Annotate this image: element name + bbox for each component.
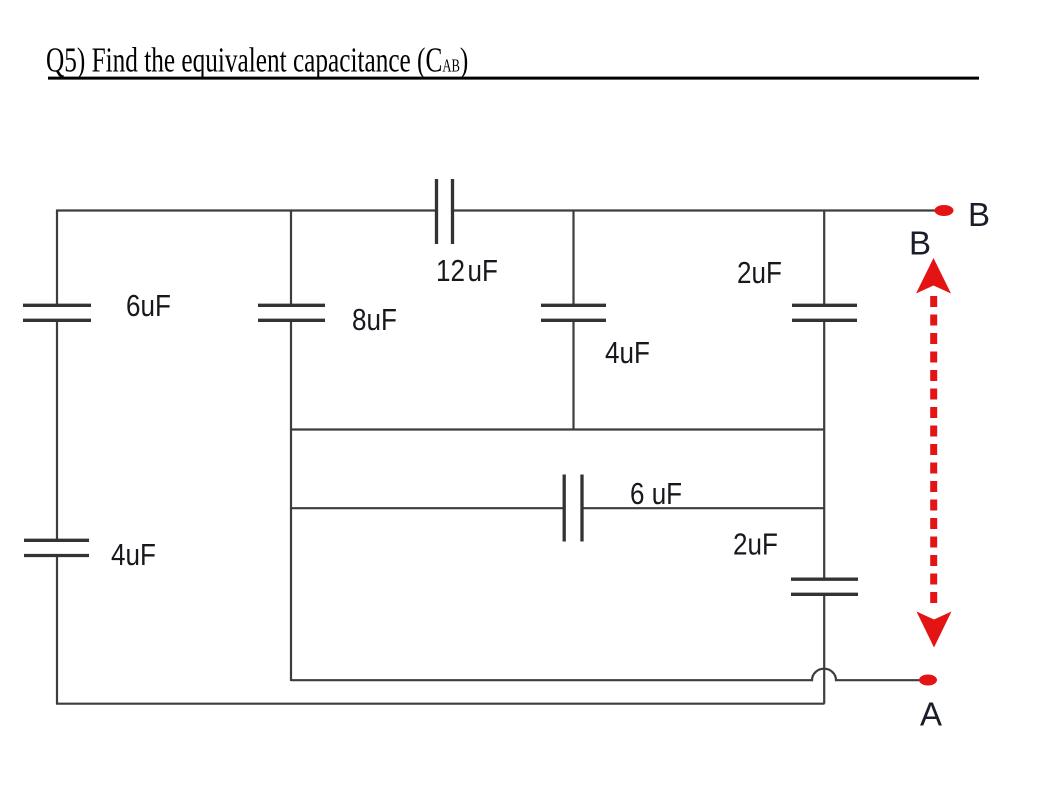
wire: right branch middle segment [823, 321, 825, 579]
measurement arrow A to B (red dashed) [916, 258, 952, 648]
capacitor C6 2uF (top right) plates [792, 304, 857, 307]
capacitor C7 6uF (inner rail) plates [563, 475, 566, 542]
wire: inner bottom rail to terminal A with hop over x=823.5 [291, 669, 920, 681]
wire: top rail right of C12 to terminal B [453, 209, 938, 211]
wire: 4uF branch lower segment [572, 321, 574, 430]
wire: left branch middle segment [56, 321, 58, 541]
capacitor C4 12uF plates [435, 179, 438, 244]
node A terminal dot [919, 675, 937, 686]
node B terminal dot [935, 205, 954, 216]
arrow dashed shaft [930, 296, 937, 609]
svg-text:2uF: 2uF [737, 256, 782, 291]
capacitor C2 4uF (left) plates [24, 539, 89, 542]
capacitor C1 6uF plates [23, 304, 91, 307]
svg-text:6 uF: 6 uF [630, 477, 682, 512]
wire: left branch upper segment [56, 210, 58, 305]
svg-text:2uF: 2uF [733, 527, 778, 562]
wire: right branch upper segment x=823.5 [823, 210, 825, 305]
wire: 8uF branch lower segment down to inner bottom rail [290, 321, 292, 681]
svg-text:4uF: 4uF [111, 538, 156, 573]
svg-text:8uF: 8uF [352, 303, 397, 338]
svg-text:Q5) Find the equivalent capaci: Q5) Find the equivalent capacitance (CAB… [46, 41, 468, 80]
wire: 4uF branch upper segment x=573 [572, 210, 574, 305]
svg-text:12uF: 12uF [436, 254, 498, 289]
svg-text:A: A [920, 696, 942, 733]
svg-text:B: B [909, 225, 931, 262]
wire: inner rail 2 right of C6 [583, 507, 825, 509]
capacitor C8 2uF (bottom right) plates [791, 578, 858, 581]
capacitor C3 8uF plates [258, 304, 325, 307]
wire: 8uF branch upper segment x=291 [290, 210, 292, 305]
arrowhead up (B end) [916, 258, 951, 294]
wire: bottom outer rail [56, 703, 825, 705]
arrowhead down (A end) [917, 612, 952, 648]
wire: right branch lower segment [823, 594, 825, 704]
svg-text:6uF: 6uF [126, 289, 171, 324]
wire: left branch lower segment [56, 555, 58, 705]
wire: top rail node B, y=210 [56, 209, 436, 211]
title underline [48, 77, 979, 80]
svg-text:B: B [968, 196, 990, 233]
wire: inner rail 2 left of C6 (y=508) [291, 507, 564, 509]
svg-text:4uF: 4uF [605, 336, 650, 371]
capacitor C5 4uF (middle) plates [541, 304, 606, 307]
wire: inner rail 1 (y=429) [291, 428, 824, 430]
